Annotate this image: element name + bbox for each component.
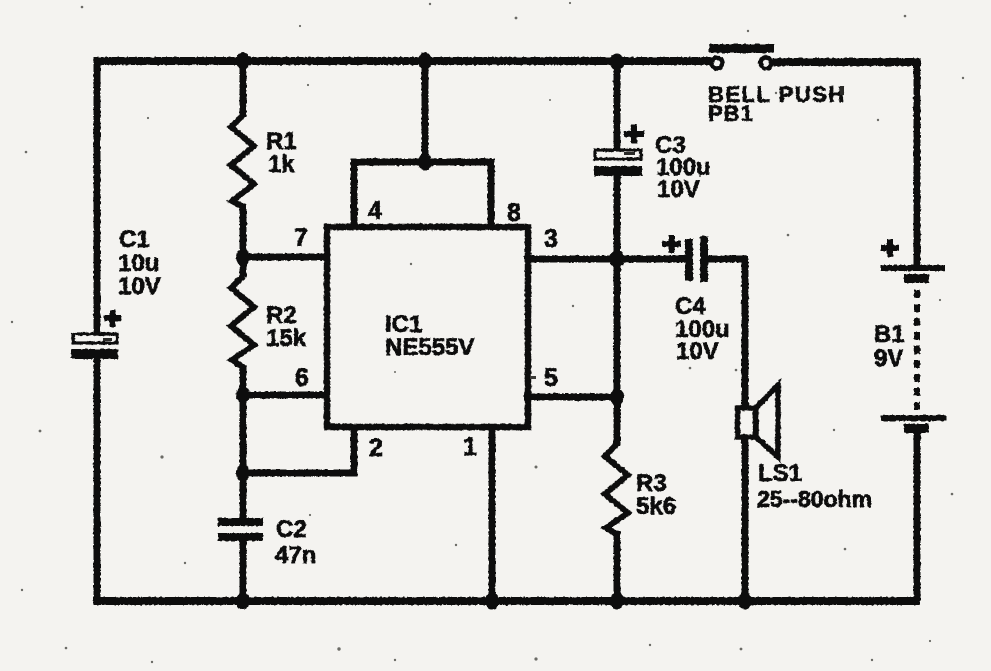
wire top rail right segment [773,58,917,66]
IC U1 (IC1 NE555V) [327,227,528,427]
node bottom rail / C2 [236,593,250,610]
svg-text:15k: 15k [266,325,307,352]
wire left rail lower [94,357,101,601]
node bottom rail / speaker [738,593,752,610]
push-button PB1 bell push [709,44,774,69]
wire right rail lower [914,430,921,601]
label C4 value [675,293,730,365]
svg-text:4: 4 [368,197,382,225]
wire pin2 route [243,428,354,473]
svg-text:10V: 10V [676,338,719,365]
label R3 value [636,470,676,520]
svg-text:47n: 47n [275,542,316,569]
svg-text:1k: 1k [268,151,295,178]
B1 plus sign [881,239,899,257]
node R2/pin6 [236,387,250,404]
svg-text:1: 1 [463,433,477,461]
svg-text:PB1: PB1 [708,101,754,126]
wire C4 link [617,256,748,263]
C1 plus sign [104,310,121,327]
svg-text:6: 6 [295,364,309,392]
node R1/R2/pin7 [236,249,250,266]
svg-text:10V: 10V [657,176,700,203]
wire pin3 stub [524,256,617,263]
wire right rail upper [914,58,921,267]
svg-text:LS1: LS1 [758,460,802,487]
wire left rail upper [94,58,101,336]
svg-text:3: 3 [544,225,558,253]
wire top rail left segment [94,57,711,65]
wire pin7 stub [243,254,330,261]
node top rail / R1 [236,53,250,70]
node pin2/C2 [236,465,250,482]
svg-text:8: 8 [507,199,521,227]
node top rail / C3 [610,54,624,71]
resistor R1 [231,115,254,207]
wire pin6 stub [243,392,330,399]
svg-text:C2: C2 [276,516,307,543]
svg-text:10V: 10V [118,273,161,300]
svg-text:5k6: 5k6 [636,493,676,520]
svg-text:25--80ohm: 25--80ohm [757,486,872,512]
label R1 value [266,128,297,178]
wire R1/R2 branch (x=241) [240,61,247,601]
wire top feed to bracket [422,61,429,162]
svg-text:7: 7 [294,224,308,252]
node pin5/R3 [610,389,624,406]
capacitor C4 [685,236,708,282]
battery B1 [881,265,946,433]
wire pin1 drop [489,428,496,601]
svg-text:5: 5 [544,364,558,392]
node bottom rail / pin1 [485,593,499,610]
svg-text:B1: B1 [874,321,905,348]
node top rail / pin4-8 feed [418,53,432,70]
wire pin5 stub [524,394,617,401]
capacitor C3 [594,150,642,176]
label C1 value [118,226,161,300]
node bottom rail / R3 [610,593,624,610]
label BELL PUSH PB1 [708,82,846,126]
label LS1 value [757,460,872,512]
wire speaker branch (x=742) [742,259,749,601]
node pin3/C3/C4 [610,250,625,268]
capacitor C1 [71,334,118,359]
svg-text:2: 2 [369,434,383,462]
wire bottom rail [93,597,920,605]
svg-text:9V: 9V [874,345,903,372]
label C3 value [655,132,711,203]
C3 plus sign [624,125,644,144]
label C2 value [275,516,316,569]
wire pins 4-8 bracket [354,162,491,228]
svg-text:NE555V: NE555V [385,334,474,361]
wire C3/R3 branch (x=617) [614,61,621,601]
label B1 value [874,321,905,372]
svg-text:C1: C1 [119,226,150,253]
battery dashed middle [914,290,920,415]
resistor R3 [605,444,628,534]
node bracket / feed [418,154,432,171]
speaker LS1 [738,385,779,457]
resistor R2 [231,276,254,367]
label R2 value [266,302,307,352]
capacitor C2 [218,518,263,541]
C4 plus sign [662,235,681,253]
